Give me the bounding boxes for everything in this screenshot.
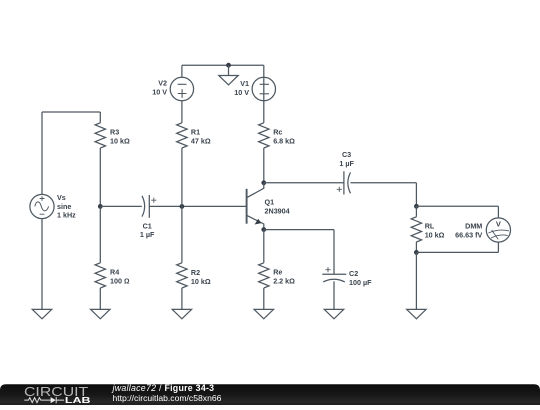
svg-text:V1: V1 [240, 79, 249, 88]
wire [497, 242, 499, 252]
wire [264, 182, 344, 184]
voltmeter DMM [455, 218, 510, 242]
svg-text:Vs: Vs [57, 193, 66, 202]
resistor Re [259, 263, 296, 288]
wire [497, 206, 499, 218]
wire [100, 205, 142, 207]
wire [181, 101, 183, 123]
wire [181, 148, 183, 206]
node collector junction [261, 180, 266, 185]
wire [181, 206, 183, 262]
node R3/R4/C1 junction [98, 204, 103, 209]
wire [263, 230, 265, 263]
wire [333, 230, 335, 275]
wire [99, 206, 101, 262]
ground [407, 309, 426, 318]
svg-text:1 µF: 1 µF [339, 159, 354, 168]
wire [181, 65, 183, 77]
svg-text:2.2 kΩ: 2.2 kΩ [273, 277, 295, 286]
svg-text:LAB: LAB [65, 396, 91, 405]
node emitter junction [261, 227, 266, 232]
capacitor C3 [337, 150, 355, 194]
svg-text:C2: C2 [349, 269, 358, 278]
wire [416, 205, 498, 207]
wire [415, 252, 417, 309]
wire [228, 65, 230, 75]
svg-text:10 kΩ: 10 kΩ [110, 137, 130, 146]
resistor Rc [259, 123, 296, 148]
footer bar [0, 385, 540, 406]
voltage source V2 [152, 77, 193, 100]
svg-text:6.8 kΩ: 6.8 kΩ [273, 137, 295, 146]
svg-text:V2: V2 [158, 79, 167, 88]
svg-text:1 kHz: 1 kHz [57, 211, 76, 220]
capacitor C2 [322, 267, 372, 287]
voltage source Vs [30, 193, 76, 220]
wire [416, 251, 498, 253]
svg-text:R2: R2 [191, 268, 200, 277]
wire [99, 112, 101, 123]
resistor R3 [95, 123, 130, 148]
svg-text:R3: R3 [110, 128, 119, 137]
ground [172, 309, 191, 318]
svg-text:100 µF: 100 µF [349, 278, 372, 287]
svg-text:2N3904: 2N3904 [265, 206, 290, 215]
wire [263, 288, 265, 309]
wire [415, 206, 417, 217]
svg-text:1 µF: 1 µF [140, 230, 155, 239]
wire [351, 182, 417, 184]
wire [99, 288, 101, 309]
ground [32, 309, 51, 318]
resistor RL [411, 217, 444, 242]
svg-text:47 kΩ: 47 kΩ [191, 137, 211, 146]
svg-text:10 kΩ: 10 kΩ [191, 277, 211, 286]
resistor R4 [95, 263, 129, 288]
ground [254, 309, 273, 318]
wire [415, 183, 417, 207]
svg-text:RL: RL [425, 221, 435, 230]
svg-text:V: V [496, 220, 501, 229]
svg-text:Re: Re [273, 268, 282, 277]
node RL top junction [414, 204, 419, 209]
logo resistor-diode glyph [24, 398, 50, 403]
wire [41, 219, 43, 310]
svg-text:Rc: Rc [273, 128, 282, 137]
svg-text:http://circuitlab.com/c58xn66: http://circuitlab.com/c58xn66 [113, 393, 222, 403]
ground [324, 309, 343, 318]
svg-text:C3: C3 [342, 150, 351, 159]
ground [91, 309, 110, 318]
voltage source V1 [234, 65, 275, 123]
svg-text:sine: sine [57, 202, 71, 211]
capacitor C1 [140, 195, 156, 239]
wire [415, 242, 417, 252]
svg-text:R4: R4 [110, 268, 119, 277]
resistor R2 [177, 263, 211, 288]
svg-text:C1: C1 [143, 221, 152, 230]
wire [149, 205, 246, 207]
wire [333, 281, 335, 309]
wire [41, 112, 43, 194]
resistor R1 [177, 123, 211, 148]
wire [181, 288, 183, 309]
node top rail ground junction [226, 63, 231, 68]
svg-text:Q1: Q1 [265, 198, 275, 207]
svg-text:DMM: DMM [465, 221, 482, 230]
svg-text:100 Ω: 100 Ω [110, 277, 130, 286]
ground [219, 76, 238, 85]
svg-text:66.63 fV: 66.63 fV [455, 230, 482, 239]
wire [99, 148, 101, 206]
node RL bottom junction [414, 250, 419, 255]
svg-text:10 kΩ: 10 kΩ [425, 230, 445, 239]
svg-text:R1: R1 [191, 128, 200, 137]
wire top rail [182, 64, 264, 66]
transistor Q1 [247, 183, 290, 230]
wire [42, 111, 100, 113]
svg-text:10 V: 10 V [152, 88, 167, 97]
svg-text:10 V: 10 V [234, 88, 249, 97]
wire [264, 229, 334, 231]
node C1/R1/R2 junction [180, 204, 185, 209]
wire [263, 148, 265, 183]
